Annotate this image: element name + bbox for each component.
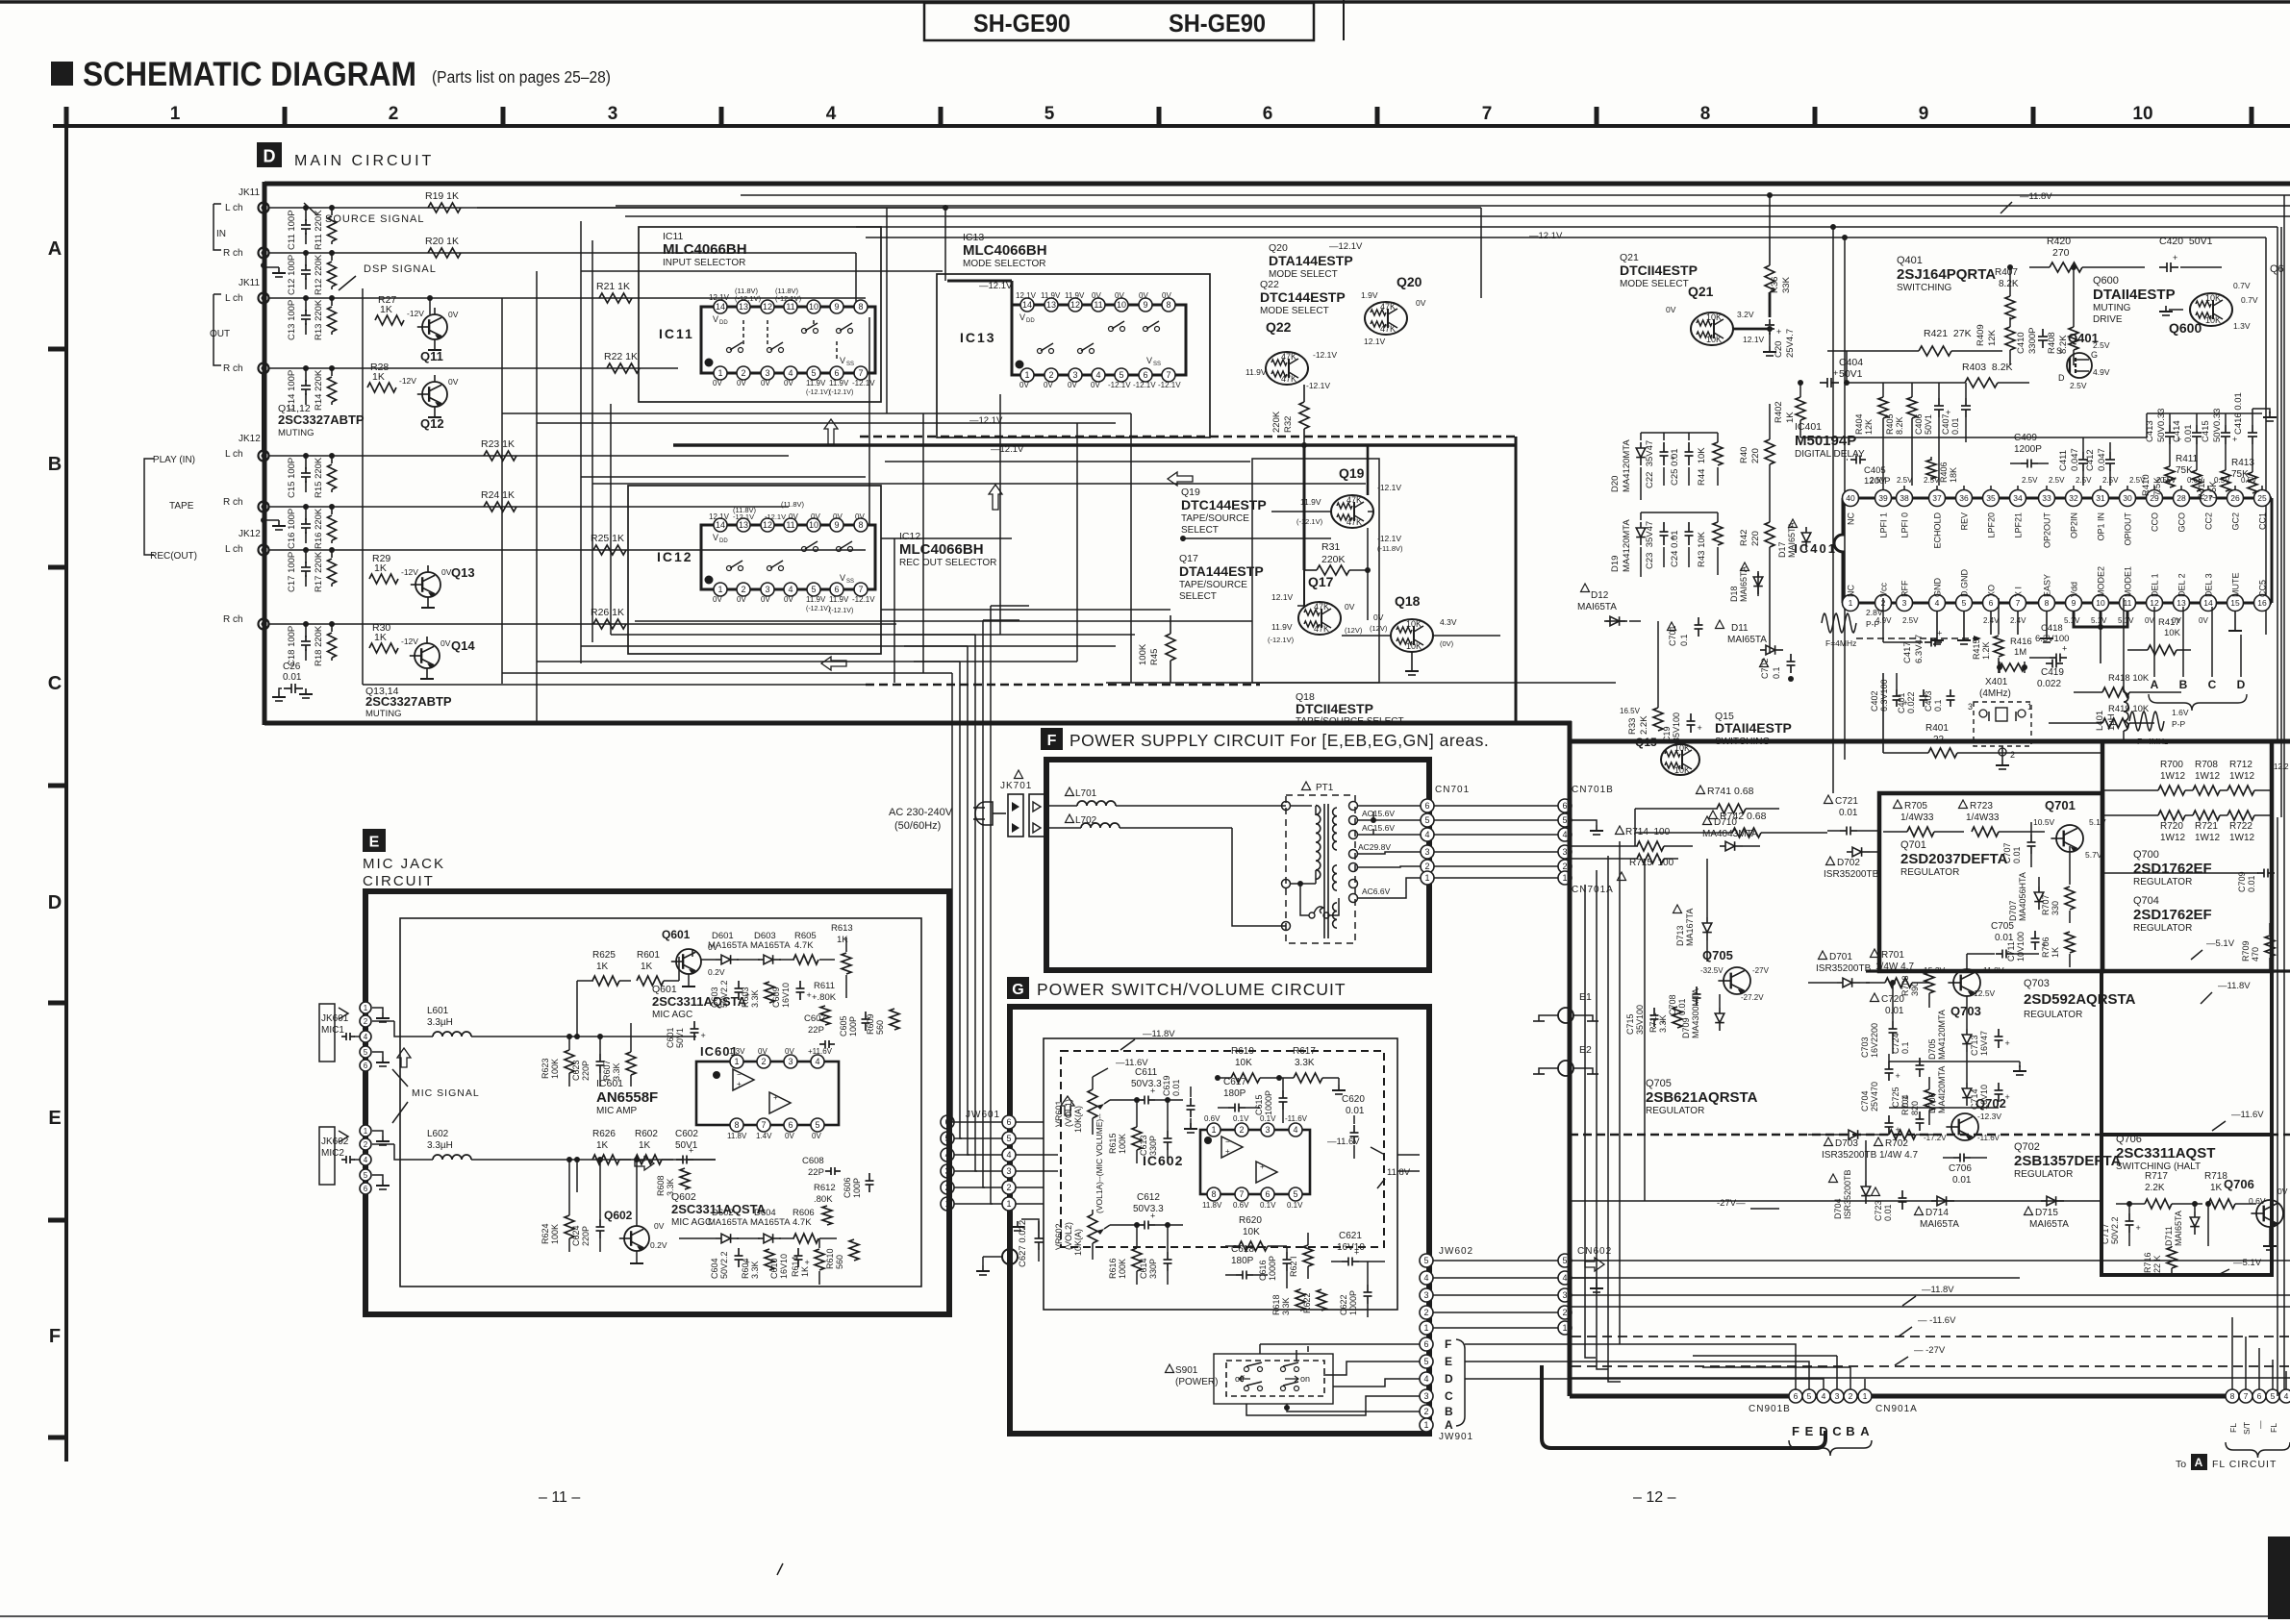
wire central v1040 xyxy=(999,394,1001,635)
svg-text:L701: L701 xyxy=(1075,788,1097,799)
svg-text:4: 4 xyxy=(788,585,793,594)
capacitor C711 xyxy=(2006,931,2047,962)
svg-text:D17: D17 xyxy=(1777,541,1787,558)
svg-text:0.7V: 0.7V xyxy=(2241,295,2258,305)
svg-text:-27V: -27V xyxy=(1752,966,1770,975)
svg-text:JK12: JK12 xyxy=(239,529,261,539)
svg-text:VR602: VR602 xyxy=(1054,1223,1064,1250)
label Q20 block xyxy=(1269,242,1353,280)
svg-text:A: A xyxy=(2195,1456,2203,1469)
svg-text:R616: R616 xyxy=(1108,1258,1118,1279)
svg-text:R608: R608 xyxy=(656,1175,666,1196)
svg-text:D713: D713 xyxy=(1675,925,1685,946)
svg-text:3: 3 xyxy=(1968,702,1973,712)
capacitor C412 xyxy=(2085,442,2115,486)
svg-text:2SC3311AQST: 2SC3311AQST xyxy=(2116,1145,2215,1162)
svg-text:+: + xyxy=(805,1258,810,1267)
wire vert x558 bus xyxy=(536,271,538,723)
diode D18 xyxy=(1729,562,1763,602)
svg-text:D711: D711 xyxy=(2164,1226,2174,1246)
label Q6xx cut xyxy=(2270,263,2284,275)
svg-text:1K: 1K xyxy=(2210,1183,2223,1193)
svg-text:100K: 100K xyxy=(550,1224,560,1244)
CN901 pin letters xyxy=(1789,1424,1872,1456)
transistor Q19 xyxy=(1296,465,1403,553)
svg-text:R705: R705 xyxy=(1904,801,1927,812)
svg-text:IC401: IC401 xyxy=(1795,421,1822,433)
IC601 pins xyxy=(730,1055,824,1132)
svg-text:1K: 1K xyxy=(596,962,609,972)
svg-text:3: 3 xyxy=(788,1057,793,1066)
svg-text:2.5V: 2.5V xyxy=(1902,616,1919,625)
diode D701 xyxy=(1808,951,1872,987)
vertical feed x1648 xyxy=(1585,885,1596,1358)
svg-text:C406: C406 xyxy=(1914,413,1924,435)
svg-text:0.2V: 0.2V xyxy=(708,967,725,977)
IC401 pin circles xyxy=(1843,490,2271,612)
svg-text:10K: 10K xyxy=(2164,628,2181,638)
section label E xyxy=(363,829,386,852)
capacitor C615 xyxy=(1254,1078,1288,1123)
svg-text:(POWER): (POWER) xyxy=(1175,1377,1218,1387)
wire Q19 drop xyxy=(1368,445,1373,620)
label Q21 block xyxy=(1620,252,1698,289)
svg-text:16.5V: 16.5V xyxy=(1620,707,1641,715)
svg-text:S/T: S/T xyxy=(2242,1422,2252,1435)
capacitor C622 xyxy=(1339,1262,1372,1317)
svg-text:R601: R601 xyxy=(637,950,660,961)
svg-text:MIC JACK: MIC JACK xyxy=(363,856,445,872)
svg-text:D709: D709 xyxy=(1681,1017,1691,1038)
svg-text:14: 14 xyxy=(2203,598,2213,608)
svg-text:—12.1V: —12.1V xyxy=(969,415,1003,426)
svg-text:180P: 180P xyxy=(1223,1088,1246,1099)
svg-text:7.5K: 7.5K xyxy=(2152,477,2163,496)
svg-text:C701: C701 xyxy=(1668,625,1677,646)
svg-text:R420: R420 xyxy=(2047,236,2071,247)
svg-text:R411: R411 xyxy=(2176,454,2199,464)
svg-text:D702: D702 xyxy=(1837,858,1860,868)
svg-text:47K: 47K xyxy=(1346,517,1362,527)
svg-text:R402: R402 xyxy=(1774,401,1784,423)
svg-text:5: 5 xyxy=(1962,598,1967,608)
svg-text:0V: 0V xyxy=(2277,1187,2288,1196)
diode D602 xyxy=(708,1208,748,1243)
svg-text:E: E xyxy=(1805,1424,1814,1438)
svg-text:CC5: CC5 xyxy=(2258,580,2268,597)
diode D20 group xyxy=(1610,433,1723,492)
resistor R619 xyxy=(1215,1046,1282,1083)
svg-text:−: − xyxy=(737,1070,742,1079)
svg-text:R701: R701 xyxy=(1881,950,1904,961)
resistor R705 xyxy=(1883,800,1964,837)
svg-text:0V: 0V xyxy=(811,512,820,521)
jack JK601 xyxy=(319,1002,390,1071)
svg-text:220: 220 xyxy=(1750,531,1761,546)
svg-text:0V: 0V xyxy=(761,595,770,604)
svg-text:—5.1V: —5.1V xyxy=(2233,1258,2262,1268)
IC602 opamps xyxy=(1204,1137,1277,1183)
svg-text:3.3K: 3.3K xyxy=(750,989,760,1008)
svg-text:100P: 100P xyxy=(848,1016,858,1037)
svg-text:8.2K: 8.2K xyxy=(1895,416,1904,435)
svg-text:DTCII4ESTP: DTCII4ESTP xyxy=(1296,701,1373,716)
F block border xyxy=(1046,760,1429,970)
svg-text:8.2K: 8.2K xyxy=(1999,279,2019,289)
svg-text:(-12.1V): (-12.1V) xyxy=(735,294,762,303)
svg-text:R609: R609 xyxy=(866,1013,875,1035)
svg-text:JK11: JK11 xyxy=(239,278,260,288)
svg-text:D: D xyxy=(264,146,276,165)
box Q701 regulator xyxy=(1879,793,2102,971)
svg-text:Q705: Q705 xyxy=(1646,1078,1672,1089)
svg-text:12.1V: 12.1V xyxy=(709,512,730,521)
bus -12.1V dashed lower xyxy=(363,288,1260,685)
svg-text:12K: 12K xyxy=(1864,419,1874,435)
section label F xyxy=(1041,728,1063,750)
svg-text:R707: R707 xyxy=(2041,894,2051,915)
resistor R621 xyxy=(1289,1233,1313,1279)
svg-text:6: 6 xyxy=(1265,1189,1270,1199)
svg-text:L601: L601 xyxy=(427,1006,449,1016)
svg-text:12: 12 xyxy=(763,520,772,530)
svg-text:1K: 1K xyxy=(380,304,392,315)
svg-text:6.3V100: 6.3V100 xyxy=(1879,679,1889,712)
svg-text:LPFI 1: LPFI 1 xyxy=(1879,512,1889,538)
svg-text:11.9V: 11.9V xyxy=(806,379,826,387)
svg-text:R604: R604 xyxy=(741,1258,750,1279)
svg-text:470: 470 xyxy=(2251,947,2260,962)
thick divider x2185 xyxy=(2101,971,2272,1135)
label -11.6V right xyxy=(2212,1110,2264,1131)
svg-text:1K: 1K xyxy=(596,1140,609,1151)
svg-text:+: + xyxy=(1776,327,1781,337)
arrow deco 7 xyxy=(635,1157,654,1170)
svg-text:5: 5 xyxy=(1006,1134,1011,1143)
svg-text:5: 5 xyxy=(1807,1391,1812,1401)
wire vert x604 bus xyxy=(580,221,582,663)
svg-text:1000P: 1000P xyxy=(1264,1090,1273,1115)
resistor R708 xyxy=(2185,760,2221,795)
svg-text:Q702: Q702 xyxy=(2014,1141,2040,1153)
resistor R403 xyxy=(1847,362,2029,387)
svg-text:2: 2 xyxy=(364,1017,368,1026)
diode D11 xyxy=(1716,620,1784,655)
resistor R623 xyxy=(541,1034,574,1087)
diode D715 xyxy=(2025,1196,2070,1230)
svg-text:4: 4 xyxy=(1562,830,1567,839)
capacitor C16 / resistor R16 xyxy=(287,504,337,549)
svg-text:G: G xyxy=(2091,350,2098,360)
svg-text:12.5V: 12.5V xyxy=(1974,988,1996,998)
svg-text:C703: C703 xyxy=(1860,1037,1870,1058)
svg-text:Q20: Q20 xyxy=(1397,274,1422,289)
capacitor C701 xyxy=(1668,617,1703,646)
wire PLAY Rch row xyxy=(269,506,789,508)
svg-text:AC29.8V: AC29.8V xyxy=(1358,842,1391,852)
pads ABCD xyxy=(2151,607,2246,691)
svg-text:0V: 0V xyxy=(1345,602,1355,612)
svg-text:0V: 0V xyxy=(833,512,843,521)
svg-text:Q601: Q601 xyxy=(662,928,691,941)
IC11 pin voltages bottom xyxy=(713,379,875,396)
svg-text:1.2K: 1.2K xyxy=(1981,641,1991,660)
svg-text:1/4W33: 1/4W33 xyxy=(1966,812,2000,823)
transistor Q17 xyxy=(1268,574,1363,644)
diode D17 xyxy=(1777,519,1811,558)
svg-text:R31: R31 xyxy=(1321,541,1340,553)
capacitor C413 xyxy=(2145,409,2181,444)
svg-text:4: 4 xyxy=(364,1033,368,1041)
svg-text:Q706: Q706 xyxy=(2224,1177,2254,1191)
svg-text:10K: 10K xyxy=(1674,765,1690,775)
svg-text:REC(OUT): REC(OUT) xyxy=(150,551,197,562)
stray mark xyxy=(777,1563,783,1575)
svg-text:50V2.2: 50V2.2 xyxy=(719,1251,729,1279)
resistor R706 xyxy=(2041,932,2075,967)
capacitor C707 xyxy=(2002,822,2036,867)
coil L602 xyxy=(372,1129,577,1160)
svg-text:— -11.6V: — -11.6V xyxy=(1918,1315,1956,1326)
svg-text:Q17: Q17 xyxy=(1308,574,1334,589)
capacitor C627 xyxy=(1011,1219,1044,1267)
svg-text:11.9V: 11.9V xyxy=(1246,367,1267,377)
svg-text:0.01: 0.01 xyxy=(1839,808,1858,818)
svg-text:L602: L602 xyxy=(427,1129,449,1139)
wire IN Lch to IC13 xyxy=(477,207,1481,209)
label Q702 type xyxy=(2014,1141,2122,1180)
svg-text:3.3K: 3.3K xyxy=(1281,1297,1291,1315)
svg-text:10K: 10K xyxy=(1406,641,1422,651)
svg-text:C704: C704 xyxy=(1860,1090,1870,1112)
svg-text:5: 5 xyxy=(811,368,816,378)
svg-text:R720: R720 xyxy=(2160,821,2183,832)
svg-text:Q14: Q14 xyxy=(451,638,475,653)
jack label tape xyxy=(144,459,194,555)
svg-text:10K: 10K xyxy=(1706,335,1722,344)
note To FL circuit xyxy=(2176,1454,2277,1470)
capacitor C415 xyxy=(2201,409,2237,444)
svg-text:30: 30 xyxy=(2123,493,2132,503)
svg-text:DTC144ESTP: DTC144ESTP xyxy=(1260,289,1346,305)
svg-text:0V: 0V xyxy=(713,595,722,604)
grid ruler column numbers 1-10 xyxy=(170,104,2153,124)
svg-text:—12.1V: —12.1V xyxy=(1329,241,1363,252)
svg-text:R25 1K: R25 1K xyxy=(591,533,624,544)
svg-text:To: To xyxy=(2176,1459,2186,1470)
jacks JK11 JK12 terminals xyxy=(259,203,269,630)
transistor Q601 xyxy=(662,928,725,987)
svg-text:CN901A: CN901A xyxy=(1875,1404,1918,1414)
svg-text:A: A xyxy=(1445,1418,1453,1432)
svg-text:4: 4 xyxy=(1424,830,1429,839)
resistor R605 xyxy=(793,931,835,964)
svg-text:R625: R625 xyxy=(592,950,616,961)
svg-text:DTA144ESTP: DTA144ESTP xyxy=(1269,253,1353,268)
capacitor C406 xyxy=(1914,383,1950,486)
transformer PT1 xyxy=(1282,782,1356,943)
svg-text:5: 5 xyxy=(1423,1256,1428,1265)
label Q600 type xyxy=(2093,275,2176,325)
svg-text:0V: 0V xyxy=(737,595,746,604)
svg-text:1K: 1K xyxy=(641,962,653,972)
connector JW601 right col xyxy=(1002,1115,1016,1211)
capacitor C706 xyxy=(1943,1154,1987,1187)
resistor R716v xyxy=(2143,1204,2208,1275)
AC plug symbol xyxy=(973,802,1006,825)
svg-text:12.1V: 12.1V xyxy=(1016,291,1037,300)
IC11 inner body xyxy=(701,307,875,373)
svg-text:OPIOUT: OPIOUT xyxy=(2124,512,2133,546)
svg-text:R622: R622 xyxy=(1302,1292,1312,1313)
svg-text:13: 13 xyxy=(2177,598,2186,608)
resistor R625 xyxy=(577,950,631,986)
svg-text:-12.1V: -12.1V xyxy=(852,379,875,387)
IC401 bottom pin names xyxy=(1847,566,2268,597)
capacitor C723 xyxy=(1872,1187,1907,1221)
svg-text:C620: C620 xyxy=(1342,1094,1365,1105)
svg-text:11: 11 xyxy=(2124,598,2132,608)
capacitor C611 xyxy=(1110,1067,1183,1105)
svg-text:L ch: L ch xyxy=(225,544,243,555)
svg-text:-27.2V: -27.2V xyxy=(1741,993,1764,1002)
svg-text:(-12.1V): (-12.1V) xyxy=(1268,636,1295,644)
svg-text:CN701: CN701 xyxy=(1435,785,1470,795)
svg-text:1K: 1K xyxy=(374,562,387,574)
svg-text:MA4043MTA: MA4043MTA xyxy=(1702,829,1758,839)
svg-text:C: C xyxy=(1445,1389,1453,1403)
IC11 outer box xyxy=(639,227,881,402)
section label G xyxy=(1007,977,1029,999)
capacitor C12 / resistor R12 xyxy=(287,250,337,295)
capacitor C725 xyxy=(1891,1087,1925,1131)
svg-text:2: 2 xyxy=(741,585,745,594)
svg-text:11: 11 xyxy=(786,520,794,530)
IC602 pins xyxy=(1207,1123,1302,1201)
svg-text:—11.8V: —11.8V xyxy=(1143,1029,1175,1039)
svg-text:Q705: Q705 xyxy=(1702,948,1733,962)
wire vert x522 bus xyxy=(501,298,503,684)
svg-text:INPUT SELECTOR: INPUT SELECTOR xyxy=(663,258,745,268)
svg-text:0.01: 0.01 xyxy=(1950,417,1960,435)
bus extra y1329 right xyxy=(1572,1277,2020,1279)
svg-text:1.4V: 1.4V xyxy=(756,1132,772,1140)
svg-text:R618: R618 xyxy=(1271,1294,1281,1315)
resistor R421 xyxy=(1827,328,2002,356)
svg-text:R21 1K: R21 1K xyxy=(596,281,630,292)
svg-text:DEL 2: DEL 2 xyxy=(2177,573,2187,597)
svg-text:-27V—: -27V— xyxy=(1717,1198,1746,1209)
svg-text:R403 8.2K: R403 8.2K xyxy=(1962,362,2013,373)
svg-text:MUTING: MUTING xyxy=(2093,303,2131,313)
capacitor C601 xyxy=(666,1021,706,1048)
arrow deco 5 xyxy=(397,1048,411,1067)
svg-text:TAPE: TAPE xyxy=(169,501,194,512)
svg-text:(-11.8V): (-11.8V) xyxy=(1377,544,1403,553)
svg-text:0.1V: 0.1V xyxy=(1260,1201,1276,1210)
svg-text:(11.8V): (11.8V) xyxy=(781,500,805,509)
svg-text:0V: 0V xyxy=(1019,381,1029,389)
svg-text:DIGITAL DELAY: DIGITAL DELAY xyxy=(1795,449,1865,460)
wire drop x1840 from bus xyxy=(1767,192,1773,237)
svg-text:0.01: 0.01 xyxy=(1883,1204,1893,1221)
svg-text:R23 1K: R23 1K xyxy=(481,438,515,450)
capacitor C418 xyxy=(2029,623,2069,662)
IC601 voltages xyxy=(727,1047,833,1140)
wires D-group risers xyxy=(1641,467,1718,577)
svg-text:9: 9 xyxy=(834,520,839,530)
svg-text:(4MHz): (4MHz) xyxy=(1979,688,2011,699)
svg-text:7: 7 xyxy=(2244,1391,2249,1401)
svg-text:6: 6 xyxy=(834,585,839,594)
svg-text:FL: FL xyxy=(2269,1423,2278,1433)
svg-text:2: 2 xyxy=(389,104,399,124)
svg-text:IC601: IC601 xyxy=(596,1078,623,1089)
resistor R24 1K xyxy=(481,489,516,512)
svg-text:C724: C724 xyxy=(1891,1033,1900,1054)
svg-text:0V: 0V xyxy=(758,1047,768,1056)
svg-text:2: 2 xyxy=(1562,1308,1567,1317)
svg-text:R24 1K: R24 1K xyxy=(481,489,515,501)
svg-text:R40: R40 xyxy=(1739,447,1749,463)
svg-text:0V: 0V xyxy=(1666,305,1676,314)
wire x1840 to Q15 xyxy=(1758,567,1770,654)
arrow deco 3 xyxy=(821,657,846,670)
svg-text:50V2.2: 50V2.2 xyxy=(2110,1216,2120,1244)
resistor R722 xyxy=(2220,811,2272,843)
IC12 pins xyxy=(714,518,868,596)
capacitor C15 / resistor R15 xyxy=(287,453,337,498)
bus -27V bottom xyxy=(1572,1345,2290,1366)
svg-text:C623: C623 xyxy=(571,1060,581,1081)
svg-text:2SJ164PQRTA: 2SJ164PQRTA xyxy=(1897,266,1996,283)
wires S901 to JW901 xyxy=(1246,1344,1420,1415)
switch S901 xyxy=(1166,1354,1334,1404)
svg-text:REV: REV xyxy=(1960,512,1970,531)
svg-text:OP2OUT: OP2OUT xyxy=(2043,512,2052,549)
svg-text:-12.1V: -12.1V xyxy=(1306,381,1330,390)
transformer taps xyxy=(1349,802,1358,903)
gnd stub CN701B5 xyxy=(1572,820,1603,835)
svg-text:+: + xyxy=(1698,723,1702,733)
svg-text:12K: 12K xyxy=(1987,329,1998,346)
svg-text:4: 4 xyxy=(1935,598,1940,608)
wire horiz y496 run xyxy=(581,476,866,478)
resistor R614 xyxy=(791,1238,824,1285)
svg-text:R700: R700 xyxy=(2160,760,2183,770)
svg-text:R623: R623 xyxy=(541,1058,550,1079)
label -11.6V g xyxy=(1093,1058,1148,1077)
svg-text:1K: 1K xyxy=(639,1140,651,1151)
svg-text:7: 7 xyxy=(1166,370,1170,380)
resistor R714 xyxy=(1572,826,1693,851)
svg-text:D701: D701 xyxy=(1829,952,1852,962)
capacitor C703 xyxy=(1860,1023,1900,1081)
svg-text:3: 3 xyxy=(1902,598,1907,608)
svg-text:4: 4 xyxy=(364,1156,368,1164)
svg-text:0.01: 0.01 xyxy=(2012,846,2022,863)
transistor Q14 with base resistor R30 xyxy=(369,622,451,679)
svg-text:Q401: Q401 xyxy=(1897,255,1923,266)
svg-text:-12.1V: -12.1V xyxy=(733,512,754,521)
grid ruler horizontal line xyxy=(53,124,2290,128)
G dashed -11.6V box xyxy=(1061,1051,1384,1247)
svg-text:4: 4 xyxy=(1423,1273,1428,1283)
resistor R617 xyxy=(1279,1046,1346,1094)
IC12 pin voltages top xyxy=(709,500,865,521)
IC401 top pin stubs xyxy=(1883,486,2262,490)
svg-text:C20: C20 xyxy=(1774,341,1784,358)
